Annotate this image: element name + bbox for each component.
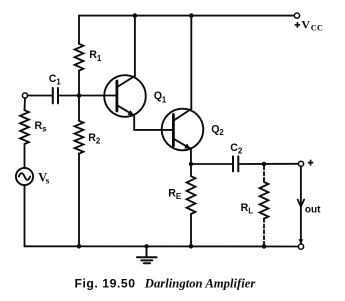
label output plus — [308, 160, 314, 166]
ground — [137, 246, 157, 263]
node Q1 collector rail — [133, 13, 138, 18]
wire RL bottom dashed — [263, 219, 265, 245]
svg-text:2: 2 — [219, 128, 224, 137]
resistor R2 — [75, 121, 84, 154]
node ground junction — [144, 244, 148, 248]
node base divider junction — [77, 93, 82, 98]
arrow vout bottom — [299, 239, 304, 244]
wire bottom rail — [25, 245, 299, 247]
transistor Q1 — [104, 75, 146, 117]
node RL bottom — [262, 244, 267, 249]
svg-text:1: 1 — [56, 77, 61, 86]
label R1 — [89, 49, 102, 63]
label Q2 — [211, 124, 224, 138]
svg-text:Darlington Amplifier: Darlington Amplifier — [144, 277, 257, 291]
terminal input — [22, 93, 27, 98]
wire R1 top — [78, 16, 80, 44]
label RE — [168, 187, 182, 201]
resistor RE — [187, 176, 196, 214]
wire R2 top — [78, 96, 80, 121]
label Rs — [35, 120, 48, 133]
resistor Rs top wire — [24, 98, 27, 110]
node RL top — [262, 162, 267, 167]
svg-text:V: V — [301, 17, 310, 31]
wire Q1 collector — [134, 16, 136, 76]
label R2 — [88, 132, 101, 146]
source Vs — [16, 168, 33, 185]
wire emitter to C2 — [191, 163, 232, 165]
svg-text:s: s — [46, 176, 50, 186]
wire top supply rail — [79, 15, 294, 17]
transistor Q2 — [162, 109, 204, 151]
svg-text:2: 2 — [238, 146, 243, 155]
label C2 — [230, 142, 243, 155]
node RE bottom — [189, 244, 194, 249]
node Q2 collector rail — [189, 13, 194, 18]
wire R1 bottom — [78, 71, 80, 96]
label +VCC — [295, 17, 323, 32]
terminal output bottom — [298, 244, 303, 249]
wire RE bottom — [190, 214, 192, 246]
caption Fig. 19.50 Darlington Amplifier — [75, 277, 257, 291]
wire C2 to output — [239, 163, 298, 165]
wire RE top — [190, 164, 192, 176]
svg-text:L: L — [248, 207, 253, 216]
wire RL top dashed — [263, 166, 265, 182]
wire Rs to Vs — [24, 144, 26, 168]
label RL — [241, 202, 254, 216]
node R2 bottom — [77, 244, 82, 249]
wire Vs bottom — [24, 185, 26, 246]
svg-text:1: 1 — [97, 54, 102, 63]
label Q1 — [154, 90, 167, 104]
label Vs — [38, 170, 50, 185]
svg-text:s: s — [42, 124, 47, 133]
svg-text:CC: CC — [311, 23, 323, 32]
wire Q2 collector — [190, 16, 192, 109]
resistor RL — [260, 182, 269, 219]
capacitor C2 — [233, 156, 238, 171]
wire C1 to Q1 base — [59, 95, 116, 97]
wire input to C1 — [28, 95, 52, 97]
node emitter junction — [189, 162, 193, 166]
terminal output top — [298, 161, 303, 166]
svg-text:2: 2 — [96, 137, 101, 146]
wire vout line — [300, 166, 302, 243]
resistor Rs — [20, 110, 29, 144]
svg-text:1: 1 — [162, 96, 167, 105]
resistor R1 — [75, 44, 84, 71]
wire Q1 emitter to Q2 base — [134, 115, 173, 130]
svg-text:out: out — [305, 205, 321, 216]
terminal +VCC — [294, 13, 299, 18]
capacitor C1 — [53, 88, 58, 103]
svg-text:Fig. 19.50: Fig. 19.50 — [75, 277, 136, 291]
arrow vout V — [298, 200, 304, 207]
wire Q2 emitter — [190, 148, 192, 164]
label C1 — [49, 73, 62, 86]
svg-text:E: E — [176, 192, 182, 201]
wire R2 bottom — [78, 154, 80, 247]
